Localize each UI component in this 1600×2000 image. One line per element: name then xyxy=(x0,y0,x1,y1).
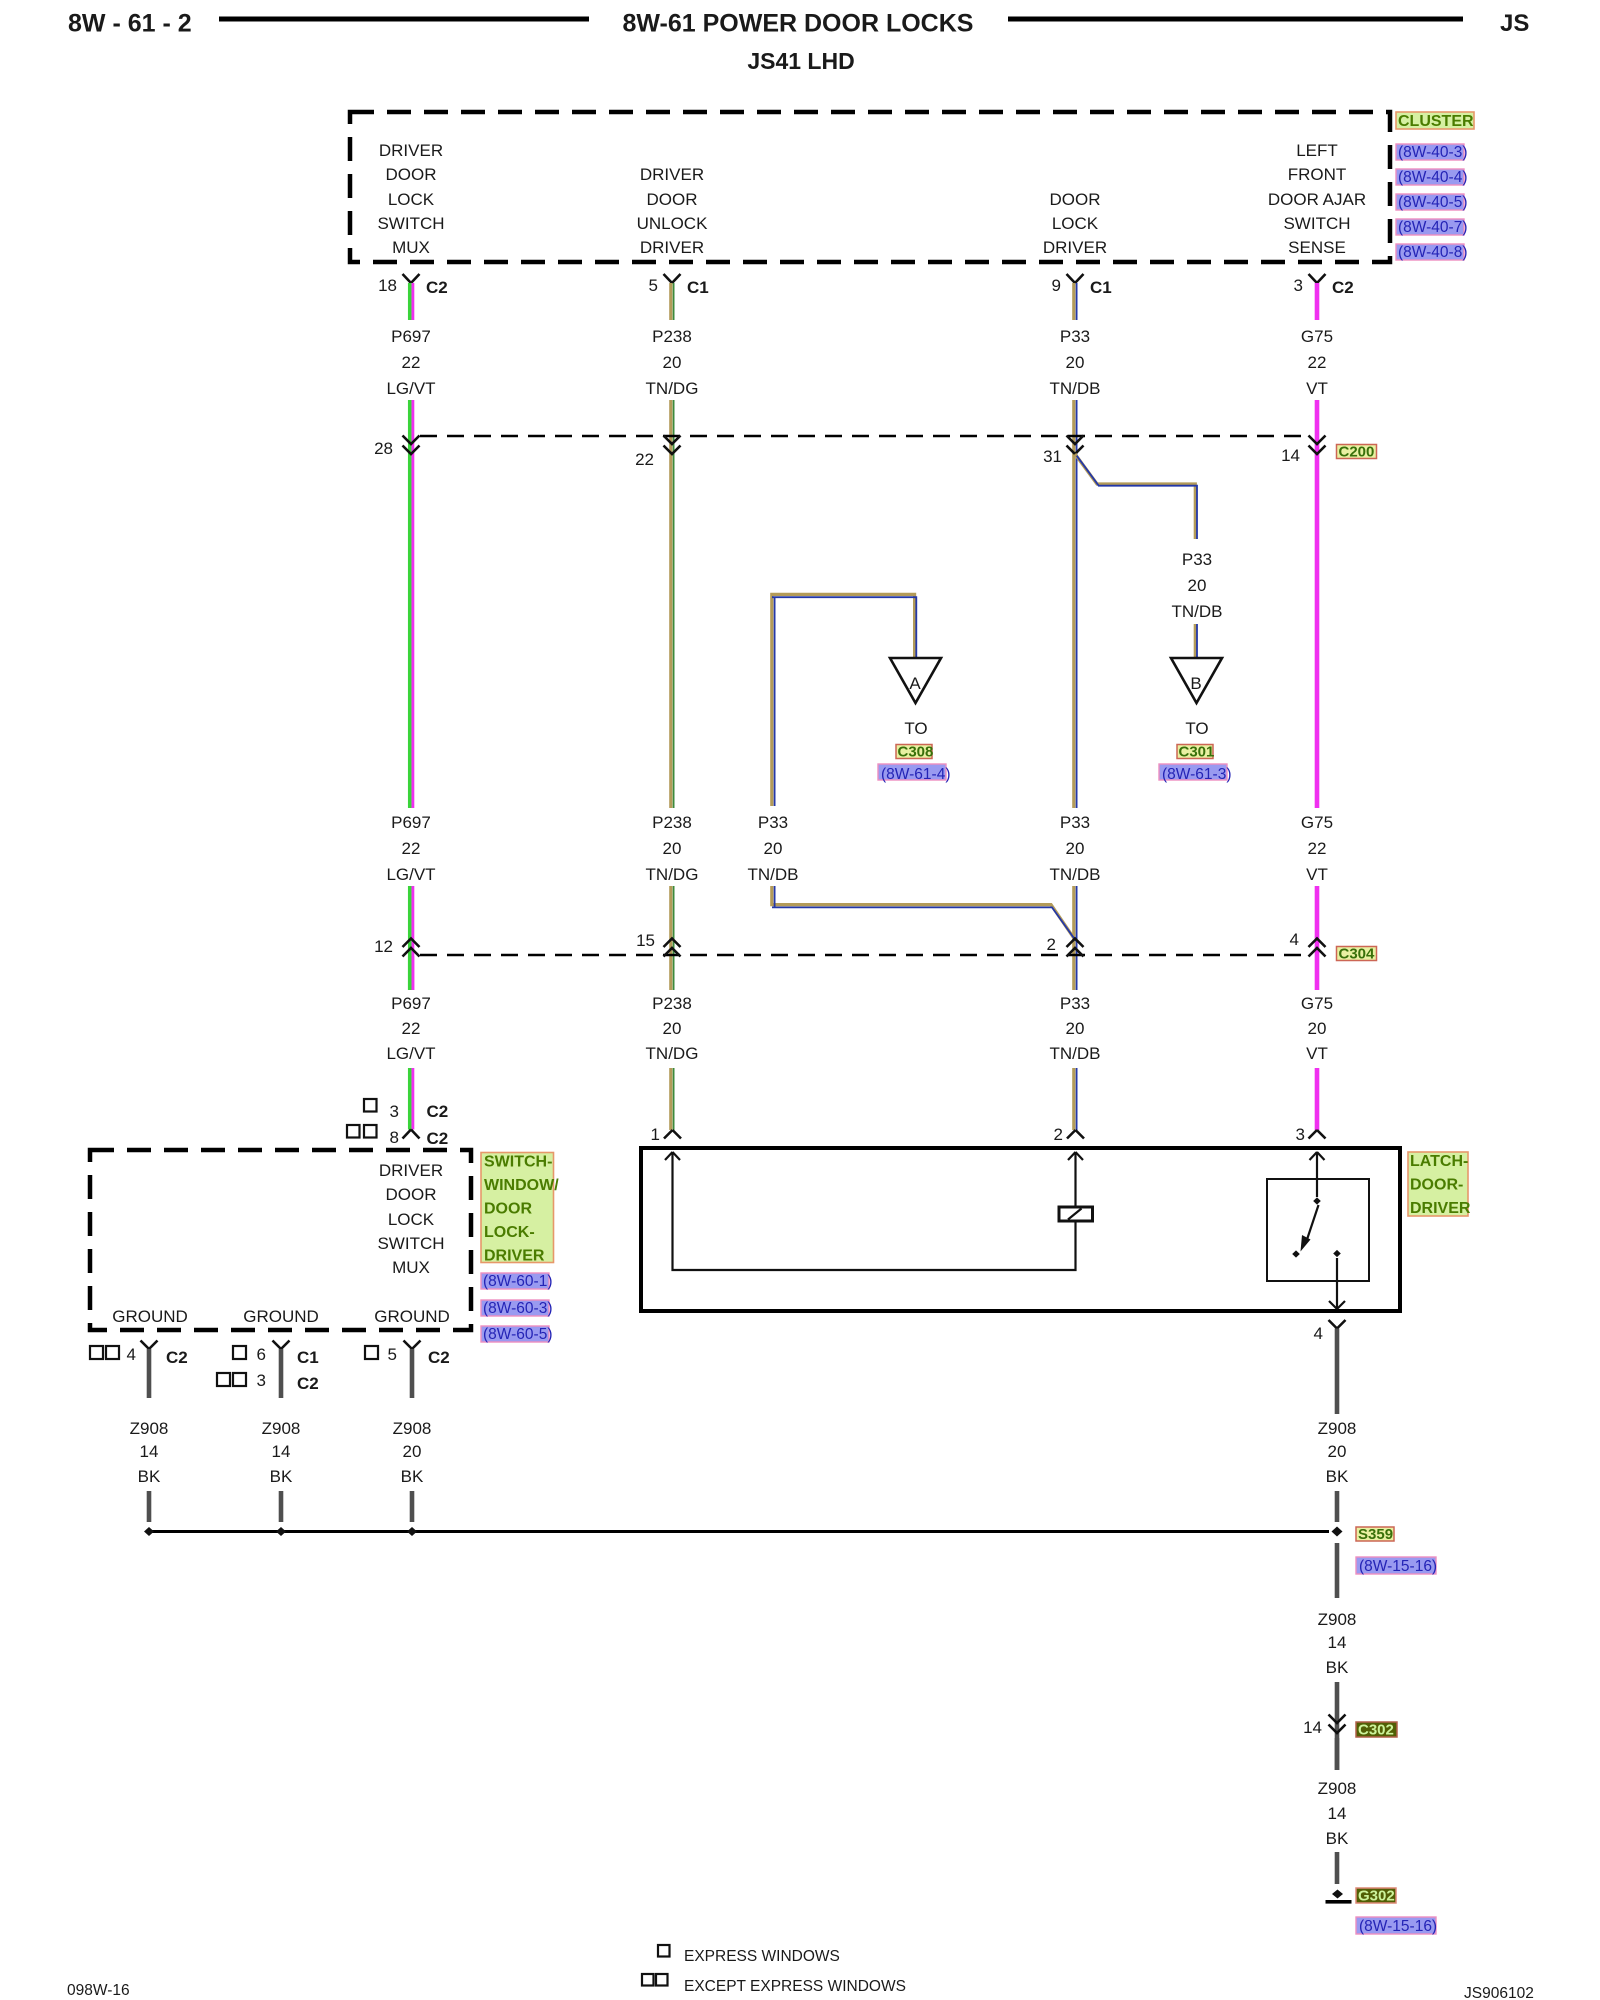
off-page triangle B xyxy=(1171,658,1222,703)
label P238 20 TN/DG (lower) xyxy=(646,994,699,1063)
svg-text:SENSE: SENSE xyxy=(1288,238,1346,257)
svg-text:15: 15 xyxy=(636,931,655,950)
svg-text:20: 20 xyxy=(403,1442,422,1461)
svg-text:(8W-40-8): (8W-40-8) xyxy=(1398,244,1467,261)
svg-text:BK: BK xyxy=(1326,1467,1349,1486)
cluster module dashed box xyxy=(350,112,1390,262)
svg-text:C2: C2 xyxy=(1332,278,1354,297)
junction ground C xyxy=(407,1527,417,1536)
svg-text:(8W-40-7): (8W-40-7) xyxy=(1398,219,1467,236)
link 8W-40-8 xyxy=(1396,244,1467,261)
svg-text:A: A xyxy=(909,674,921,693)
wire P697 lower segment to switch pin 8 xyxy=(410,1068,413,1130)
latch internal wire pin1 to coil xyxy=(665,1152,1076,1270)
svg-text:(8W-40-5): (8W-40-5) xyxy=(1398,194,1467,211)
connector pin 5 C1 (cluster) xyxy=(649,274,709,297)
link 8W-40-7 xyxy=(1396,219,1467,236)
C304 pin 15 xyxy=(636,931,680,957)
svg-text:EXCEPT EXPRESS WINDOWS: EXCEPT EXPRESS WINDOWS xyxy=(684,1978,906,1995)
svg-text:UNLOCK: UNLOCK xyxy=(637,214,709,233)
svg-text:P697: P697 xyxy=(391,813,431,832)
label Z908 20 BK (ground C) xyxy=(393,1419,432,1486)
svg-text:C304: C304 xyxy=(1339,946,1376,963)
wire G75 segment cluster to C200 xyxy=(1315,283,1320,808)
svg-text:3: 3 xyxy=(1296,1125,1305,1144)
svg-text:DRIVER: DRIVER xyxy=(379,1161,443,1180)
svg-text:098W-16: 098W-16 xyxy=(67,1982,130,1999)
ground pin 5 C2 connector xyxy=(365,1341,450,1368)
label P697 22 LG/VT (lower) xyxy=(386,994,435,1063)
svg-text:VT: VT xyxy=(1306,865,1328,884)
svg-text:4: 4 xyxy=(1314,1324,1323,1343)
cluster pin function labels xyxy=(377,141,1366,257)
svg-text:Z908: Z908 xyxy=(393,1419,432,1438)
svg-text:2: 2 xyxy=(1047,935,1056,954)
svg-text:P33: P33 xyxy=(1060,327,1090,346)
wire P33 segment cluster to C200 xyxy=(1074,283,1077,808)
svg-text:14: 14 xyxy=(1281,446,1300,465)
svg-text:31: 31 xyxy=(1043,447,1062,466)
svg-text:22: 22 xyxy=(402,839,421,858)
C304 pin 12 xyxy=(374,937,419,957)
junction ground A xyxy=(144,1527,154,1536)
svg-text:LATCH-: LATCH- xyxy=(1410,1153,1468,1170)
svg-text:TO: TO xyxy=(1185,719,1208,738)
svg-text:3: 3 xyxy=(1294,276,1303,295)
svg-text:20: 20 xyxy=(764,839,783,858)
svg-text:EXPRESS WINDOWS: EXPRESS WINDOWS xyxy=(684,1948,840,1965)
wire G75 lower segment to latch pin 3 xyxy=(1315,1068,1320,1130)
switch module dashed box xyxy=(90,1150,471,1330)
svg-text:20: 20 xyxy=(663,839,682,858)
svg-text:P33: P33 xyxy=(1182,550,1212,569)
latch pin 4 connector xyxy=(1314,1320,1346,1343)
svg-text:(8W-40-3): (8W-40-3) xyxy=(1398,144,1467,161)
label C304 xyxy=(1337,946,1377,963)
latch pin 3 connector xyxy=(1296,1125,1326,1144)
svg-text:GROUND: GROUND xyxy=(374,1307,450,1326)
svg-text:14: 14 xyxy=(272,1442,291,1461)
wire P33 branch to triangle B xyxy=(1075,454,1197,658)
svg-text:G75: G75 xyxy=(1301,994,1333,1013)
wire Z908 ground B upper xyxy=(279,1349,284,1398)
label G302 xyxy=(1356,1888,1396,1905)
svg-text:P697: P697 xyxy=(391,994,431,1013)
svg-text:SWITCH: SWITCH xyxy=(377,1234,444,1253)
svg-text:LOCK: LOCK xyxy=(388,190,435,209)
label P33 20 TN/DB (branch A mid) xyxy=(748,813,799,884)
svg-text:28: 28 xyxy=(374,439,393,458)
svg-text:GROUND: GROUND xyxy=(112,1307,188,1326)
svg-text:JS906102: JS906102 xyxy=(1464,1985,1534,2000)
svg-text:DOOR-: DOOR- xyxy=(1410,1177,1463,1194)
svg-text:P238: P238 xyxy=(652,994,692,1013)
svg-text:MUX: MUX xyxy=(392,238,430,257)
svg-text:LG/VT: LG/VT xyxy=(386,865,435,884)
ground pin 4 C2 connector xyxy=(90,1341,188,1368)
C200 pin 14 xyxy=(1281,436,1325,466)
wire Z908 ground C lower xyxy=(410,1491,415,1522)
wire P238 lower segment to latch pin 1 xyxy=(671,1068,674,1130)
svg-text:1: 1 xyxy=(651,1125,660,1144)
svg-text:22: 22 xyxy=(635,450,654,469)
connector pin 3 C2 (cluster) xyxy=(1294,274,1354,297)
svg-text:5: 5 xyxy=(388,1345,397,1364)
in-line connector C200 dashed line xyxy=(420,435,1308,438)
svg-text:Z908: Z908 xyxy=(1318,1419,1357,1438)
svg-text:20: 20 xyxy=(1066,353,1085,372)
label S359 xyxy=(1356,1526,1394,1543)
svg-text:JS41 LHD: JS41 LHD xyxy=(747,48,854,74)
svg-text:P697: P697 xyxy=(391,327,431,346)
wire Z908 ground A lower xyxy=(147,1491,152,1522)
latch pin 2 connector xyxy=(1054,1125,1084,1144)
svg-text:C2: C2 xyxy=(428,1348,450,1367)
svg-text:MUX: MUX xyxy=(392,1258,430,1277)
C200 pin 31 xyxy=(1043,436,1083,467)
svg-text:22: 22 xyxy=(402,1019,421,1038)
svg-text:G75: G75 xyxy=(1301,813,1333,832)
latch ajar switch SW1 xyxy=(1292,1152,1345,1309)
link 8W-40-5 xyxy=(1396,194,1467,211)
label C200 xyxy=(1337,444,1377,461)
svg-text:20: 20 xyxy=(663,353,682,372)
svg-text:G75: G75 xyxy=(1301,327,1333,346)
label C302 xyxy=(1356,1722,1397,1739)
svg-text:DRIVER: DRIVER xyxy=(640,238,704,257)
ground pin 6 C1 / 3 C2 connector xyxy=(217,1341,319,1394)
wire Z908 to C302 xyxy=(1335,1682,1340,1770)
label P697 22 LG/VT (upper) xyxy=(386,327,435,398)
svg-text:LG/VT: LG/VT xyxy=(386,379,435,398)
legend express windows xyxy=(658,1945,840,1965)
wire Z908 into S359 xyxy=(1335,1491,1340,1522)
svg-text:DOOR: DOOR xyxy=(386,1185,437,1204)
wire P33 branch to triangle A xyxy=(772,594,917,806)
svg-text:LOCK-: LOCK- xyxy=(484,1224,535,1241)
svg-text:C301: C301 xyxy=(1179,744,1215,761)
svg-text:P33: P33 xyxy=(1060,994,1090,1013)
svg-text:TN/DB: TN/DB xyxy=(1050,865,1101,884)
wire Z908 latch to S359 upper xyxy=(1335,1329,1340,1415)
svg-text:C308: C308 xyxy=(898,744,934,761)
connector pin 9 C1 (cluster) xyxy=(1052,274,1112,297)
svg-text:DOOR AJAR: DOOR AJAR xyxy=(1268,190,1366,209)
svg-text:B: B xyxy=(1190,674,1201,693)
svg-text:C2: C2 xyxy=(426,278,448,297)
svg-text:20: 20 xyxy=(1188,576,1207,595)
svg-text:3: 3 xyxy=(390,1102,399,1121)
svg-text:9: 9 xyxy=(1052,276,1061,295)
ground G302 symbol xyxy=(1326,1890,1352,1904)
svg-text:BK: BK xyxy=(1326,1658,1349,1677)
label P33 20 TN/DB (mid) xyxy=(1050,813,1101,884)
svg-text:DRIVER: DRIVER xyxy=(379,141,443,160)
label TO C301 (8W-61-3) xyxy=(1159,719,1231,783)
svg-text:DOOR: DOOR xyxy=(1050,190,1101,209)
svg-text:BK: BK xyxy=(401,1467,424,1486)
wire G75 segment mid to C304 xyxy=(1315,886,1320,990)
svg-text:20: 20 xyxy=(663,1019,682,1038)
link 8W-60-1 xyxy=(481,1273,552,1290)
svg-text:8W - 61 - 2: 8W - 61 - 2 xyxy=(68,10,192,38)
svg-text:C1: C1 xyxy=(687,278,709,297)
label Z908 14 BK (C302-G302) xyxy=(1318,1779,1357,1848)
svg-text:8: 8 xyxy=(390,1128,399,1147)
wire P697 segment C304 down xyxy=(410,956,413,990)
svg-text:14: 14 xyxy=(1303,1718,1322,1737)
svg-text:VT: VT xyxy=(1306,379,1328,398)
svg-text:5: 5 xyxy=(649,276,658,295)
svg-text:20: 20 xyxy=(1308,1019,1327,1038)
svg-text:20: 20 xyxy=(1328,1442,1347,1461)
wire Z908 ground A upper xyxy=(147,1349,152,1398)
svg-text:BK: BK xyxy=(138,1467,161,1486)
svg-text:C302: C302 xyxy=(1358,1722,1394,1739)
label G75 22 VT (mid) xyxy=(1301,813,1333,884)
C304 pin 4 xyxy=(1290,930,1326,957)
off-page triangle A xyxy=(890,658,941,703)
svg-text:BK: BK xyxy=(1326,1829,1349,1848)
svg-text:DOOR: DOOR xyxy=(386,165,437,184)
svg-text:C2: C2 xyxy=(297,1374,319,1393)
svg-text:BK: BK xyxy=(270,1467,293,1486)
svg-text:VT: VT xyxy=(1306,1044,1328,1063)
svg-text:18: 18 xyxy=(378,276,397,295)
svg-text:(8W-15-16): (8W-15-16) xyxy=(1359,1918,1437,1935)
svg-text:WINDOW/: WINDOW/ xyxy=(484,1177,559,1194)
svg-text:3: 3 xyxy=(257,1371,266,1390)
svg-text:(8W-15-16): (8W-15-16) xyxy=(1359,1558,1437,1575)
svg-text:TN/DB: TN/DB xyxy=(1050,1044,1101,1063)
wire P33 segment mid to C304 xyxy=(1074,886,1077,990)
svg-text:SWITCH: SWITCH xyxy=(377,214,444,233)
label P697 22 LG/VT (mid) xyxy=(386,813,435,884)
svg-text:SWITCH-: SWITCH- xyxy=(484,1154,552,1171)
wire Z908 below C302 xyxy=(1335,1738,1340,1770)
svg-text:TN/DB: TN/DB xyxy=(1172,602,1223,621)
svg-text:22: 22 xyxy=(1308,353,1327,372)
svg-text:(8W-60-3): (8W-60-3) xyxy=(483,1300,552,1317)
svg-text:6: 6 xyxy=(257,1345,266,1364)
svg-text:LEFT: LEFT xyxy=(1296,141,1338,160)
svg-text:4: 4 xyxy=(127,1345,136,1364)
svg-text:20: 20 xyxy=(1066,839,1085,858)
label LATCH-DOOR-DRIVER xyxy=(1408,1152,1471,1217)
label P33 20 TN/DB (branch B) xyxy=(1172,550,1223,621)
legend except express windows xyxy=(642,1974,906,1995)
header title block xyxy=(68,10,1529,75)
svg-text:22: 22 xyxy=(1308,839,1327,858)
switch module function labels xyxy=(112,1161,450,1326)
svg-text:G302: G302 xyxy=(1358,1888,1395,1905)
svg-text:12: 12 xyxy=(374,937,393,956)
wire P33 lower segment to latch pin 2 xyxy=(1074,1068,1077,1130)
wire P238 segment mid to C304 xyxy=(671,886,674,990)
wire P238 segment cluster to C200 xyxy=(671,283,674,808)
svg-text:TN/DG: TN/DG xyxy=(646,865,699,884)
svg-text:Z908: Z908 xyxy=(262,1419,301,1438)
svg-text:FRONT: FRONT xyxy=(1288,165,1347,184)
C304 pin 2 xyxy=(1047,935,1084,957)
svg-text:C2: C2 xyxy=(427,1102,449,1121)
svg-text:C1: C1 xyxy=(1090,278,1112,297)
svg-text:P33: P33 xyxy=(758,813,788,832)
svg-text:C1: C1 xyxy=(297,1348,319,1367)
svg-text:(8W-61-4): (8W-61-4) xyxy=(881,766,950,783)
svg-text:S359: S359 xyxy=(1358,1526,1393,1543)
svg-text:LOCK: LOCK xyxy=(1052,214,1099,233)
svg-text:DOOR: DOOR xyxy=(484,1201,532,1218)
label P238 20 TN/DG (upper) xyxy=(646,327,699,398)
label P33 20 TN/DB (upper) xyxy=(1050,327,1101,398)
label TO C308 (8W-61-4) xyxy=(878,719,950,783)
svg-text:4: 4 xyxy=(1290,930,1299,949)
svg-text:TN/DG: TN/DG xyxy=(646,379,699,398)
label P33 20 TN/DB (lower) xyxy=(1050,994,1101,1063)
label Z908 14 BK (ground A) xyxy=(130,1419,169,1486)
svg-text:LOCK: LOCK xyxy=(388,1210,435,1229)
svg-text:DRIVER: DRIVER xyxy=(1410,1200,1471,1217)
svg-text:(8W-40-4): (8W-40-4) xyxy=(1398,169,1467,186)
label G75 20 VT (lower) xyxy=(1301,994,1333,1063)
svg-text:C2: C2 xyxy=(427,1129,449,1148)
svg-text:14: 14 xyxy=(1328,1804,1347,1823)
wire Z908 to G302 xyxy=(1335,1852,1340,1884)
in-line connector C302 pin 14 xyxy=(1303,1715,1345,1738)
C200 pin 28 xyxy=(374,436,419,459)
label SWITCH-WINDOW/DOOR LOCK-DRIVER xyxy=(481,1153,559,1265)
svg-text:CLUSTER: CLUSTER xyxy=(1398,113,1474,130)
latch switch inner box xyxy=(1267,1179,1369,1281)
link 8W-40-3 xyxy=(1396,144,1467,161)
latch internal wire coil to pin2 xyxy=(1068,1152,1083,1207)
svg-text:Z908: Z908 xyxy=(1318,1610,1357,1629)
svg-text:C200: C200 xyxy=(1339,444,1375,461)
connector pin 18 C2 (cluster) xyxy=(378,274,448,297)
switch pin 3 C2 marker (express) xyxy=(364,1099,448,1121)
svg-text:DRIVER: DRIVER xyxy=(484,1248,545,1265)
label CLUSTER xyxy=(1396,112,1474,130)
wire P33 branch A return elbow to C304 xyxy=(772,886,1076,941)
svg-text:2: 2 xyxy=(1054,1125,1063,1144)
label G75 22 VT (upper) xyxy=(1301,327,1333,398)
svg-text:TN/DB: TN/DB xyxy=(1050,379,1101,398)
svg-text:TN/DB: TN/DB xyxy=(748,865,799,884)
svg-text:DRIVER: DRIVER xyxy=(1043,238,1107,257)
svg-text:GROUND: GROUND xyxy=(243,1307,319,1326)
C200 pin 22 xyxy=(635,436,680,470)
svg-text:C2: C2 xyxy=(166,1348,188,1367)
svg-text:TN/DG: TN/DG xyxy=(646,1044,699,1063)
link 8W-60-3 xyxy=(481,1300,552,1317)
svg-text:14: 14 xyxy=(1328,1633,1347,1652)
svg-text:8W-61 POWER DOOR LOCKS: 8W-61 POWER DOOR LOCKS xyxy=(623,10,974,38)
footer sheet numbers xyxy=(67,1982,1534,2000)
latch motor/coil M1 xyxy=(1059,1207,1093,1221)
svg-text:DRIVER: DRIVER xyxy=(640,165,704,184)
in-line connector C304 dashed line xyxy=(420,954,1308,957)
label P238 20 TN/DG (mid) xyxy=(646,813,699,884)
svg-text:20: 20 xyxy=(1066,1019,1085,1038)
svg-text:DOOR: DOOR xyxy=(647,190,698,209)
svg-text:JS: JS xyxy=(1500,10,1529,37)
latch module box xyxy=(641,1148,1400,1311)
latch pin 1 connector xyxy=(651,1125,681,1144)
svg-text:22: 22 xyxy=(402,353,421,372)
wire Z908 ground bus xyxy=(149,1530,1329,1533)
wire P697 segment cluster to C200 xyxy=(410,283,413,808)
svg-text:Z908: Z908 xyxy=(130,1419,169,1438)
svg-text:(8W-60-5): (8W-60-5) xyxy=(483,1326,552,1343)
svg-text:Z908: Z908 xyxy=(1318,1779,1357,1798)
svg-text:SWITCH: SWITCH xyxy=(1283,214,1350,233)
link 8W-60-5 xyxy=(481,1326,552,1343)
wire P697 segment mid to C304 xyxy=(410,886,413,990)
switch pin 8 C2 connector (except express) xyxy=(347,1125,448,1148)
svg-text:LG/VT: LG/VT xyxy=(386,1044,435,1063)
wire Z908 ground C upper xyxy=(410,1349,415,1398)
label Z908 14 BK (S359-C302) xyxy=(1318,1610,1357,1677)
svg-text:TO: TO xyxy=(904,719,927,738)
link 8W-40-4 xyxy=(1396,169,1467,186)
link 8W-15-16 (G302) xyxy=(1356,1917,1437,1935)
svg-text:P238: P238 xyxy=(652,813,692,832)
label Z908 14 BK (ground B) xyxy=(262,1419,301,1486)
wire Z908 ground B lower xyxy=(279,1491,284,1522)
link 8W-15-16 (S359) xyxy=(1356,1557,1437,1575)
label Z908 20 BK (latch) xyxy=(1318,1419,1357,1486)
splice S359 junction xyxy=(1332,1527,1343,1537)
svg-text:14: 14 xyxy=(140,1442,159,1461)
junction ground B xyxy=(276,1527,286,1536)
wire Z908 S359 down xyxy=(1335,1543,1340,1598)
svg-text:P238: P238 xyxy=(652,327,692,346)
svg-text:P33: P33 xyxy=(1060,813,1090,832)
svg-text:(8W-60-1): (8W-60-1) xyxy=(483,1273,552,1290)
svg-text:(8W-61-3): (8W-61-3) xyxy=(1162,766,1231,783)
